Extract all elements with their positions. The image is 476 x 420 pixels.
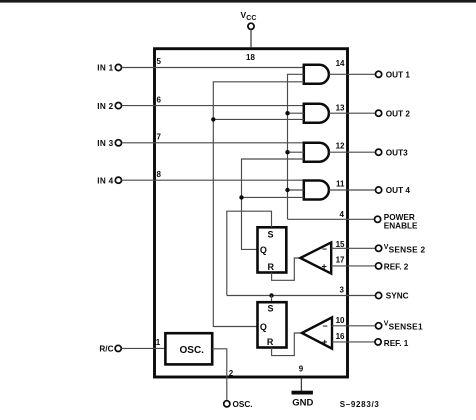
wire gate A1 output to OUT1 — [329, 73, 376, 75]
OUT2 terminal circle — [376, 110, 382, 116]
svg-text:18: 18 — [246, 53, 255, 62]
svg-text:5: 5 — [157, 57, 162, 66]
Ref1 terminal circle — [375, 339, 381, 345]
wire enable branch to gate A2 — [288, 112, 304, 114]
svg-text:IN 4: IN 4 — [97, 176, 113, 185]
wire enable branch to gate A3 — [288, 151, 304, 153]
svg-text:OUT3: OUT3 — [386, 148, 408, 157]
wire FF1 S input from sync line — [227, 211, 272, 295]
svg-text:16: 16 — [336, 332, 345, 341]
svg-text:ENABLE: ENABLE — [384, 221, 418, 230]
svg-text:7: 7 — [157, 133, 162, 142]
wire IN3 to gate A3 — [122, 142, 304, 144]
Ref2 terminal circle — [376, 263, 382, 269]
svg-text:REF. 2: REF. 2 — [384, 263, 409, 272]
svg-text:REF. 1: REF. 1 — [384, 339, 409, 348]
OUT1 terminal circle — [376, 71, 382, 77]
svg-text:3: 3 — [340, 286, 345, 295]
svg-text:GND: GND — [292, 398, 313, 409]
svg-text:CC: CC — [246, 15, 256, 22]
svg-text:S–9283/3: S–9283/3 — [340, 400, 380, 409]
svg-text:17: 17 — [336, 255, 345, 264]
AND gate A1 — [304, 65, 329, 84]
wire oscillator output to pin 2 — [212, 349, 227, 401]
wire CMP2 non-inverting input to Ref2 — [331, 265, 375, 267]
svg-text:Q: Q — [260, 245, 267, 255]
OSC output terminal circle — [224, 401, 230, 407]
wire FF1 R input from comparator CMP2 output — [272, 258, 301, 280]
Vsense1 terminal circle — [376, 323, 382, 329]
junction enable/gate A3 — [285, 150, 289, 154]
junction enable/gate A2 — [285, 111, 289, 115]
svg-text:OUT 1: OUT 1 — [386, 71, 411, 80]
wire CMP2 inverting input to Vsense2 — [331, 247, 375, 249]
junction enable/gate A4 — [285, 188, 289, 192]
IN2 terminal circle — [115, 103, 121, 109]
svg-text:IN 2: IN 2 — [97, 102, 113, 111]
junction FF2 Q / gate A2 — [211, 117, 215, 121]
IN3 terminal circle — [115, 140, 121, 146]
flip-flop FF1 box — [258, 227, 287, 272]
Vsense2 terminal circle — [376, 245, 382, 251]
wire FF2 S input stub — [271, 296, 273, 303]
svg-text:IN 1: IN 1 — [97, 64, 113, 73]
IN4 terminal circle — [115, 177, 121, 183]
wire GND pin 9 stub — [300, 378, 302, 391]
wire gate A2 output to OUT2 — [329, 112, 376, 114]
svg-text:R: R — [267, 337, 274, 347]
OUT3 terminal circle — [376, 149, 382, 155]
wire IN4 to gate A4 — [122, 179, 304, 181]
AND gate A4 — [304, 181, 329, 200]
svg-text:15: 15 — [336, 240, 345, 249]
wire CMP1 non-inverting input to Ref1 — [332, 341, 376, 343]
wire sync line — [227, 295, 376, 297]
wire FF1 Q branch to gate A4 — [242, 196, 304, 198]
wire gate A4 output to OUT4 — [329, 189, 376, 191]
OUT4 terminal circle — [376, 187, 382, 193]
svg-text:IN 3: IN 3 — [97, 139, 113, 148]
svg-text:14: 14 — [336, 59, 345, 68]
svg-text:+: + — [322, 261, 327, 271]
svg-text:R: R — [268, 262, 275, 272]
svg-text:9: 9 — [299, 364, 304, 373]
svg-text:OUT 2: OUT 2 — [386, 109, 411, 118]
svg-text:13: 13 — [336, 104, 345, 113]
comparator CMP2 (upper) — [300, 242, 331, 273]
svg-text:S: S — [268, 304, 274, 314]
svg-text:SENSE1: SENSE1 — [389, 321, 423, 331]
wire Vcc pin 18 stub — [250, 30, 252, 48]
R/C terminal circle — [115, 345, 121, 351]
comparator CMP1 (lower) — [302, 317, 332, 348]
wire IN1 to gate A1 — [122, 67, 304, 69]
svg-text:1: 1 — [156, 338, 161, 347]
svg-text:–: – — [323, 321, 328, 331]
junction FF1 Q / gate A4 — [239, 195, 243, 199]
wire IN2 to gate A2 — [122, 105, 304, 107]
svg-text:10: 10 — [336, 316, 345, 325]
svg-text:+: + — [322, 337, 327, 347]
ground symbol bar — [292, 391, 313, 395]
AND gate A3 — [304, 143, 329, 162]
svg-text:R/C: R/C — [99, 345, 113, 354]
POWER ENABLE terminal circle — [375, 216, 381, 222]
svg-text:4: 4 — [340, 210, 345, 219]
svg-text:2: 2 — [229, 369, 234, 378]
wire FF2 R input from comparator CMP1 output — [272, 333, 302, 356]
svg-text:OSC.: OSC. — [233, 400, 253, 409]
Vcc terminal circle — [248, 23, 254, 29]
IC outline box U1 — [155, 49, 348, 377]
wire flip-flop FF1 Q bus to gates A3 A4 — [242, 159, 304, 249]
wire FF2 Q branch to gate A2 — [213, 118, 303, 120]
oscillator OSC box — [165, 333, 212, 364]
svg-text:Q: Q — [260, 322, 267, 332]
AND gate A2 — [304, 104, 329, 123]
flip-flop FF2 box — [258, 302, 287, 347]
wire R/C to oscillator — [121, 347, 165, 349]
svg-text:SENSE 2: SENSE 2 — [389, 245, 426, 255]
IN1 terminal circle — [115, 64, 121, 70]
svg-text:6: 6 — [157, 95, 162, 104]
SYNC terminal circle — [376, 292, 382, 298]
svg-text:11: 11 — [336, 179, 345, 188]
wire enable branch to gate A4 — [288, 189, 304, 191]
svg-text:SYNC: SYNC — [386, 292, 409, 301]
wire flip-flop FF2 Q bus to gates A1 A2 — [213, 82, 303, 327]
wire gate A3 output to OUT3 — [329, 151, 376, 153]
svg-text:12: 12 — [336, 141, 345, 150]
wire power-enable vertical bus — [288, 74, 304, 219]
svg-text:OSC.: OSC. — [180, 345, 205, 356]
junction sync / FF2 S — [269, 293, 273, 297]
wire power enable to pin 4 — [288, 218, 375, 220]
top border bar — [0, 0, 476, 3]
svg-text:OUT 4: OUT 4 — [386, 186, 411, 195]
svg-text:8: 8 — [157, 170, 162, 179]
wire CMP1 inverting input to Vsense1 — [332, 325, 376, 327]
svg-text:S: S — [268, 229, 274, 239]
svg-text:–: – — [322, 244, 327, 254]
